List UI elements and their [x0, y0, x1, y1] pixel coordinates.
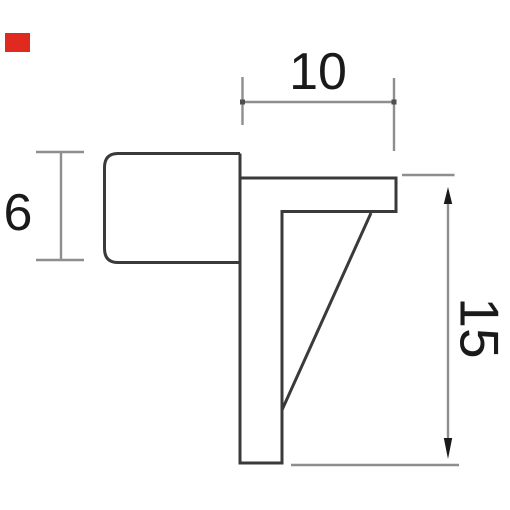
dim-6 top tick: [36, 151, 84, 153]
dim-10 horizontal dimension line: [243, 101, 395, 103]
dim-6 vertical dimension line: [60, 152, 62, 260]
bracket outline: arm and leg: [240, 154, 396, 464]
diagonal brace: [282, 213, 371, 410]
shelf pin rounded rectangle: [105, 154, 241, 263]
dim-15 top extension line: [402, 174, 455, 176]
svg-text:10: 10: [289, 43, 347, 101]
svg-text:15: 15: [448, 297, 510, 358]
dim-6 bottom tick: [36, 259, 84, 261]
dim-15 top arrowhead: [444, 187, 452, 204]
dim-15 bottom arrowhead: [444, 438, 452, 459]
dim-10 right extension line: [393, 78, 395, 151]
red marker bar top-left: [5, 33, 30, 52]
dim-15 vertical dimension line: [447, 196, 449, 448]
svg-text:6: 6: [4, 184, 33, 242]
dim-15 bottom extension line: [291, 464, 459, 466]
dim-10 right end tick: [392, 100, 397, 105]
dim-10 left extension line: [241, 77, 243, 125]
dim-10 left end tick: [240, 100, 245, 105]
